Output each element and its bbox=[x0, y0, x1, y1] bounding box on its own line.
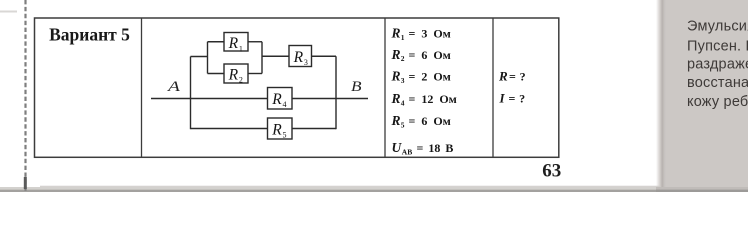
wire stubs R2 bbox=[208, 73, 225, 75]
resistor R5 bbox=[268, 118, 293, 139]
svg-text:UАВ= 18 В: UАВ= 18 В bbox=[392, 140, 454, 156]
svg-text:раздражен: раздражен bbox=[687, 57, 748, 73]
resistor R2 bbox=[224, 64, 248, 85]
svg-text:восстанав: восстанав bbox=[687, 75, 748, 91]
resistor R3 bbox=[289, 46, 312, 67]
svg-text:R2= 6 Ом: R2= 6 Ом bbox=[391, 47, 451, 63]
wire R3 to right junction bbox=[312, 55, 337, 57]
svg-text:R5= 6 Ом: R5= 6 Ом bbox=[391, 113, 451, 129]
neighbouring page grey background bbox=[665, 0, 748, 192]
svg-text:R: R bbox=[293, 49, 304, 66]
wire feed to R1 R2 bracket bbox=[191, 56, 208, 58]
svg-text:2: 2 bbox=[239, 76, 243, 85]
resistor R1 bbox=[224, 33, 248, 54]
svg-text:Вариант 5: Вариант 5 bbox=[49, 24, 130, 44]
wire right junction vertical bbox=[335, 56, 337, 129]
svg-text:I= ?: I= ? bbox=[499, 90, 526, 105]
svg-text:3: 3 bbox=[304, 58, 308, 67]
wire A to node, main line left segment bbox=[151, 98, 268, 100]
wire R5 branch left bbox=[191, 128, 268, 130]
table frame bbox=[35, 18, 559, 157]
svg-text:R1= 3 Ом: R1= 3 Ом bbox=[391, 26, 451, 42]
svg-text:1: 1 bbox=[239, 44, 243, 53]
svg-text:B: B bbox=[351, 79, 362, 95]
svg-text:R: R bbox=[228, 67, 239, 84]
wire left junction vertical bbox=[190, 57, 192, 130]
wire right bracket of R1 R2 bbox=[261, 42, 263, 74]
svg-text:5: 5 bbox=[283, 130, 287, 139]
svg-text:Пупсен. Н: Пупсен. Н bbox=[687, 39, 748, 55]
faint page edge mark top-left bbox=[0, 11, 17, 13]
neighbour page advert text bbox=[687, 19, 748, 111]
dashed cut line bbox=[24, 0, 26, 192]
svg-text:R3= 2 Ом: R3= 2 Ом bbox=[391, 69, 451, 85]
svg-text:кожу ребё: кожу ребё bbox=[687, 94, 748, 110]
page bottom edge strip bbox=[40, 185, 660, 187]
wire bracket to R3 bbox=[262, 55, 289, 57]
wire main line right segment to B bbox=[292, 98, 368, 100]
svg-text:R= ?: R= ? bbox=[498, 69, 526, 84]
svg-text:Эмульсия: Эмульсия bbox=[687, 19, 748, 35]
svg-text:4: 4 bbox=[283, 100, 287, 109]
page background bbox=[0, 0, 748, 192]
wire R5 branch right bbox=[292, 128, 336, 130]
svg-text:R: R bbox=[271, 121, 282, 138]
svg-text:R: R bbox=[228, 35, 239, 52]
svg-text:R4= 12 Ом: R4= 12 Ом bbox=[391, 91, 457, 107]
svg-text:A: A bbox=[167, 78, 180, 94]
resistor R4 bbox=[268, 88, 293, 110]
wire stubs R1 bbox=[208, 41, 225, 43]
dashed line bottom mark bbox=[24, 177, 27, 189]
wire left bracket of R1 R2 bbox=[207, 42, 209, 74]
svg-text:63: 63 bbox=[542, 161, 561, 182]
svg-text:R: R bbox=[271, 91, 282, 108]
